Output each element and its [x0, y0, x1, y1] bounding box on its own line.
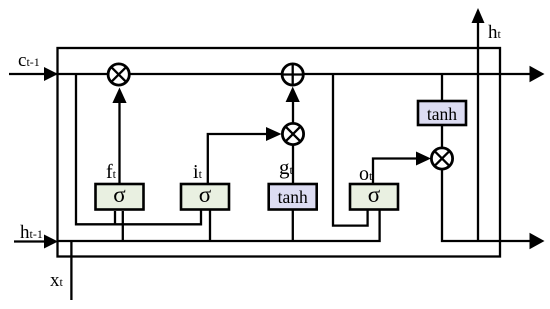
wire: o gate output to output multiply [373, 159, 417, 185]
gate g box (tanh) [269, 184, 317, 210]
arrow into forget multiply [112, 88, 126, 104]
svg-text:σ: σ [199, 182, 212, 207]
svg-text:σ: σ [113, 182, 126, 207]
svg-text:ct-1: ct-1 [18, 50, 40, 71]
svg-text:σ: σ [368, 182, 381, 207]
multiply node input (i x g) [282, 123, 303, 144]
svg-text:ht-1: ht-1 [20, 222, 43, 243]
arrow into adder [286, 87, 300, 103]
svg-text:it: it [193, 161, 203, 183]
gate o box [350, 184, 398, 210]
wire: i gate output to input multiply [208, 134, 267, 184]
wire: h-line (h_t-1 + x_t distribution) [14, 240, 44, 242]
svg-text:tanh: tanh [278, 187, 308, 207]
svg-text:gt: gt [279, 155, 294, 179]
wire: input multiply up to adder [292, 100, 294, 123]
wire: peephole c to o gate [333, 75, 368, 226]
cell boundary box [58, 48, 501, 257]
arrow c out [530, 66, 545, 83]
multiply node forget (c x f) [108, 64, 129, 85]
wire: h-line main run ending up into o gate [57, 210, 380, 241]
wire: c-line down to tanh [441, 74, 443, 101]
wire: tanh down to output multiply [441, 125, 443, 148]
wire: c-line horizontal [9, 73, 531, 75]
svg-text:ot: ot [359, 163, 373, 185]
svg-text:xt: xt [50, 270, 64, 291]
multiply node output (o x tanh(c)) [431, 148, 452, 169]
wire: h-line riser to i gate [209, 210, 211, 241]
add node (c + i*g) [282, 64, 303, 85]
wire: peephole c to f,i gates [76, 75, 201, 224]
arrow h in [44, 235, 58, 249]
wire: h_t riser up [477, 22, 479, 241]
arrow h out [530, 233, 545, 250]
gate i box [181, 184, 229, 210]
svg-text:ft: ft [106, 161, 117, 183]
wire: h-line riser to f gate [122, 211, 124, 241]
svg-text:ht: ht [488, 22, 502, 43]
arrow into input multiply [266, 127, 282, 141]
wire: h-line riser to g gate [292, 210, 294, 241]
arrow c in [44, 67, 58, 81]
wire: x_t input riser [70, 241, 72, 300]
tanh box right [418, 101, 466, 125]
svg-text:tanh: tanh [427, 104, 457, 124]
wire: output multiply down to h out line [442, 169, 530, 241]
wire: g gate output up to input multiply [292, 146, 294, 185]
arrow h_t up [472, 8, 485, 23]
arrow into output multiply [416, 152, 431, 166]
wire: branch to f gate bottom-left [114, 211, 116, 224]
gate f box [96, 184, 144, 210]
wire: f gate output up to multiply [118, 101, 120, 184]
